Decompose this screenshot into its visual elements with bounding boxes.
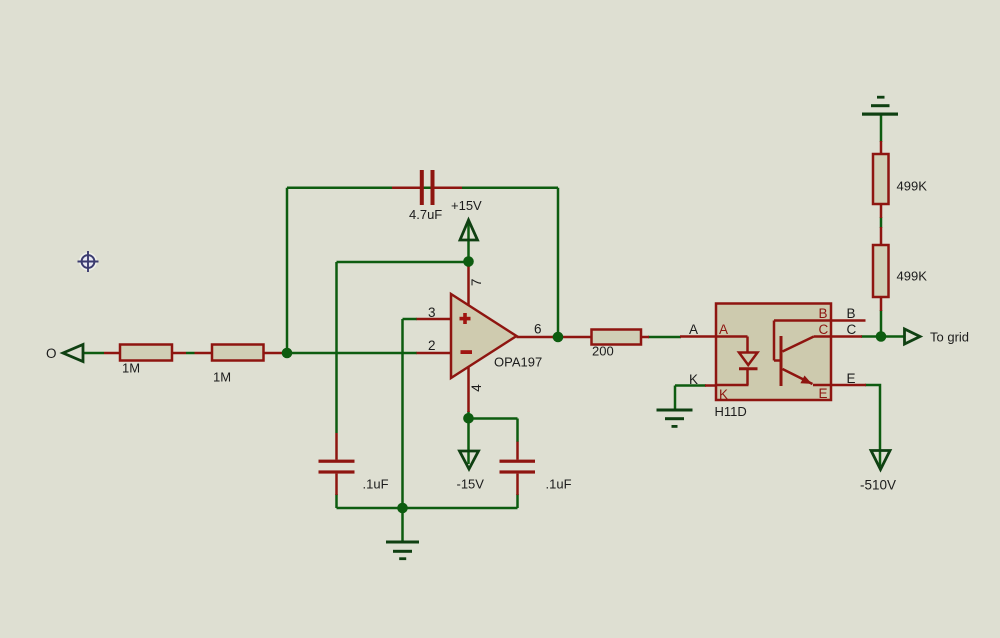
svg-text:3: 3 — [428, 305, 436, 320]
svg-text:H11D: H11D — [715, 404, 747, 419]
svg-text:-15V: -15V — [457, 477, 485, 492]
svg-text:-510V: -510V — [860, 478, 896, 493]
svg-text:4.7uF: 4.7uF — [409, 207, 442, 222]
svg-text:A: A — [689, 322, 698, 337]
svg-text:To grid: To grid — [930, 330, 969, 345]
svg-text:6: 6 — [534, 322, 542, 337]
svg-text:.1uF: .1uF — [363, 477, 389, 492]
svg-text:C: C — [847, 322, 857, 337]
svg-text:E: E — [847, 371, 856, 386]
svg-text:E: E — [819, 386, 828, 401]
svg-text:A: A — [719, 322, 728, 337]
svg-text:K: K — [719, 387, 728, 402]
svg-text:C: C — [819, 322, 829, 337]
svg-text:499K: 499K — [897, 269, 928, 284]
svg-text:K: K — [689, 372, 698, 387]
svg-text:.1uF: .1uF — [546, 477, 572, 492]
svg-text:B: B — [819, 306, 828, 321]
svg-text:4: 4 — [469, 384, 484, 392]
svg-text:1M: 1M — [213, 370, 231, 385]
svg-text:200: 200 — [592, 344, 614, 359]
svg-text:B: B — [847, 306, 856, 321]
svg-text:2: 2 — [428, 338, 436, 353]
svg-text:O: O — [46, 346, 57, 361]
svg-text:7: 7 — [469, 279, 484, 287]
svg-text:+15V: +15V — [451, 198, 482, 213]
svg-text:OPA197: OPA197 — [494, 355, 542, 370]
svg-text:499K: 499K — [897, 179, 928, 194]
svg-text:1M: 1M — [122, 361, 140, 376]
